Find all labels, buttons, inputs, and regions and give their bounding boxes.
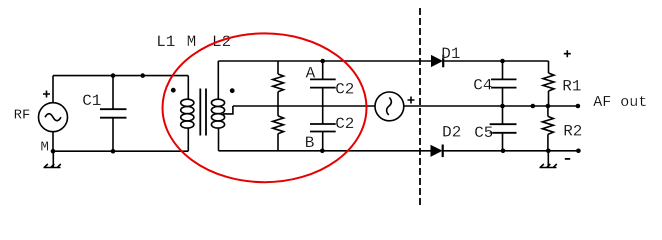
capacitor C2 upper (322, 61, 324, 79)
node C5 bottom (501, 149, 506, 154)
wire top rail D1 to corner (443, 60, 548, 62)
node L1 phase dot (171, 88, 176, 93)
wire RF riser (52, 76, 54, 103)
capacitor C4 (502, 61, 504, 79)
capacitor C5 (502, 106, 504, 124)
svg-text:D2: D2 (442, 124, 461, 142)
node lone dot on middle rail (531, 104, 536, 109)
wire bottom-middle rail (219, 150, 431, 152)
node AF out terminal (576, 104, 581, 109)
wire top-middle rail (218, 60, 431, 62)
resistor R1 (543, 73, 554, 91)
node B (320, 149, 325, 154)
ground G1 (44, 151, 61, 168)
svg-text:M: M (187, 33, 197, 51)
dashed separator line (419, 8, 421, 205)
node D1 out / C4 top (500, 59, 505, 64)
capacitor C2 lower (322, 106, 324, 124)
node R2 bottom (546, 149, 551, 154)
ground G2 (540, 151, 557, 168)
wire middle rail right (404, 105, 578, 107)
node R1/R2 mid (546, 104, 551, 109)
svg-text:C4: C4 (473, 77, 492, 95)
svg-text:R1: R1 (562, 78, 581, 96)
plus polarity RF (43, 91, 50, 98)
transformer core bars (199, 89, 201, 136)
wire top-right corner (548, 61, 550, 73)
inductor L2 (217, 61, 219, 100)
svg-text:C2: C2 (335, 81, 354, 99)
RF source V1 (39, 103, 68, 132)
minus terminal label bottom-right (565, 158, 570, 160)
wire bottom rail D2 to terminal (443, 150, 579, 152)
resistor R2 (547, 106, 549, 116)
diode D2 (431, 145, 443, 157)
wire middle rail left (233, 105, 376, 107)
node C1 bottom (111, 149, 116, 154)
node L2 phase dot (230, 88, 235, 93)
plus terminal label top-right (564, 50, 571, 57)
wire bottom-left rail (53, 150, 188, 152)
plus polarity V2 (408, 97, 415, 104)
inductor L1 (187, 76, 189, 100)
node A (320, 59, 325, 64)
wire top-left rail (53, 75, 188, 77)
node C1 top (111, 73, 116, 78)
node C4/C5 mid (500, 104, 505, 109)
resistor (lower ballast) (277, 106, 279, 116)
svg-text:C1: C1 (82, 92, 101, 110)
svg-text:C5: C5 (474, 124, 493, 142)
resistor (upper ballast) (277, 61, 279, 74)
svg-text:R2: R2 (563, 123, 582, 141)
diode D1 (431, 55, 443, 67)
node dot on top-left rail (140, 73, 145, 78)
svg-text:AF out: AF out (593, 94, 647, 111)
node bottom-right terminal (576, 149, 581, 154)
svg-text:L1: L1 (156, 33, 175, 51)
node RF-ground junction (51, 149, 56, 154)
svg-text:B: B (305, 134, 315, 152)
capacitor C1 (112, 76, 114, 110)
source V2 (discriminator voltage) (375, 92, 404, 121)
svg-text:C2: C2 (335, 115, 354, 133)
svg-text:RF: RF (14, 108, 31, 124)
wire RF bottom (52, 132, 54, 152)
wire L2 center tap (223, 106, 233, 114)
svg-text:M: M (41, 139, 49, 155)
red ellipse highlight (163, 33, 367, 182)
